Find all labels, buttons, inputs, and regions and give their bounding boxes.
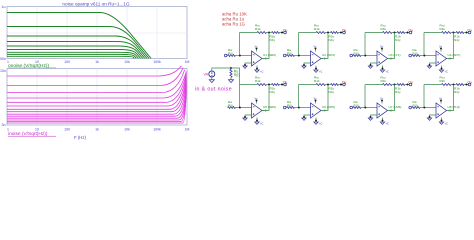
wire Rin to inverting input 5 bbox=[236, 107, 252, 109]
wire noninverting input 6 bbox=[304, 115, 311, 118]
wire Rfb to output node 2 bbox=[326, 32, 331, 34]
wire feedback vertical 6 bbox=[298, 85, 300, 108]
junction output node 5 bbox=[268, 84, 270, 86]
ground noninverting 6 bbox=[302, 118, 306, 120]
opamp cell U1 bbox=[224, 23, 287, 73]
wire Riso to out port 6 bbox=[339, 84, 343, 86]
ground noninverting 2 bbox=[302, 66, 306, 68]
junction V- 7 bbox=[382, 120, 384, 122]
svg-text:100: 100 bbox=[64, 128, 70, 132]
svg-text:Ou: Ou bbox=[409, 28, 413, 32]
wire feedback vertical 4 bbox=[423, 33, 425, 56]
svg-text:+C: +C bbox=[319, 122, 323, 126]
supply V- pin 6 bbox=[315, 118, 317, 122]
wire Rfb to output node 6 bbox=[326, 84, 331, 86]
resistor Rfb 4 bbox=[442, 32, 452, 34]
svg-text:+C: +C bbox=[445, 70, 449, 74]
onoise trace 4 bbox=[7, 42, 145, 59]
op-amp U4 bbox=[436, 51, 447, 66]
ground noninverting 4 bbox=[427, 66, 431, 68]
svg-text:N4y: N4y bbox=[270, 90, 276, 94]
junction V- 3 bbox=[382, 68, 384, 70]
junction V+ 4 bbox=[440, 48, 442, 50]
resistor Rfb 3 bbox=[383, 32, 393, 34]
svg-text:Ou: Ou bbox=[468, 28, 472, 32]
onoise trace 1 bbox=[7, 13, 151, 59]
resistor Riso 3 bbox=[397, 32, 405, 34]
out port 2 bbox=[343, 31, 346, 34]
wire Rin to inverting input 2 bbox=[295, 55, 311, 57]
wire Rfb to output node 8 bbox=[451, 84, 456, 86]
ground V- 7 bbox=[380, 122, 384, 124]
onoise trace 6 bbox=[7, 50, 141, 59]
resistor Rin 3 bbox=[353, 55, 361, 57]
wire noninverting input 8 bbox=[430, 115, 437, 118]
op-amp U2 bbox=[311, 51, 322, 66]
svg-text:+5: +5 bbox=[389, 57, 393, 61]
wire Rfb to output node 7 bbox=[392, 84, 397, 86]
ground V- 2 bbox=[314, 70, 318, 72]
svg-text:+5: +5 bbox=[263, 57, 267, 61]
voltage source VA bbox=[209, 71, 215, 77]
junction output node 1 bbox=[268, 32, 270, 34]
wire Riso to out port 8 bbox=[464, 84, 468, 86]
wire feedback top 1 bbox=[240, 32, 258, 34]
junction out port 7 bbox=[407, 84, 409, 86]
junction out port 8 bbox=[466, 84, 468, 86]
wire noninverting input 1 bbox=[245, 63, 252, 66]
ground below VA bbox=[209, 80, 214, 83]
junction feedback tap 5 bbox=[239, 107, 241, 109]
svg-text:Ou: Ou bbox=[283, 28, 287, 32]
svg-text:V+: V+ bbox=[255, 97, 259, 101]
wire input port to Rin bbox=[285, 55, 288, 57]
wire feedback top 3 bbox=[365, 32, 383, 34]
wire Riso to out port 3 bbox=[405, 32, 409, 34]
wire Riso to out port 7 bbox=[405, 84, 409, 86]
input port 3 bbox=[350, 54, 353, 57]
svg-text:R(I): R(I) bbox=[287, 104, 292, 108]
svg-text:N4y: N4y bbox=[395, 90, 401, 94]
onoise trace 9 bbox=[7, 56, 134, 58]
wire Rfb to output node 4 bbox=[451, 32, 456, 34]
svg-text:1k: 1k bbox=[95, 128, 99, 132]
svg-text:R1k: R1k bbox=[381, 27, 387, 31]
inoise trace 11 bbox=[7, 85, 186, 118]
resistor Rfb 2 bbox=[316, 32, 326, 34]
junction feedback tap 6 bbox=[298, 107, 300, 109]
onoise trace 3 bbox=[7, 36, 147, 58]
junction output node 8 bbox=[453, 84, 455, 86]
svg-text:+5: +5 bbox=[448, 109, 452, 113]
resistor Rin 1 bbox=[228, 55, 236, 57]
wire noninverting input 3 bbox=[371, 63, 378, 66]
op-amp U6 bbox=[311, 103, 322, 118]
op-amp U1 bbox=[252, 51, 263, 66]
junction V- 6 bbox=[315, 120, 317, 122]
svg-text:R(I): R(I) bbox=[287, 52, 292, 56]
junction noninverting 5 bbox=[244, 116, 246, 118]
op-amp input marks 8 bbox=[437, 107, 439, 115]
svg-text:+C: +C bbox=[386, 122, 390, 126]
svg-text:1u: 1u bbox=[2, 5, 6, 9]
x-axis tick labels onoise bbox=[7, 60, 189, 64]
svg-text:300n: 300n bbox=[0, 57, 6, 61]
svg-text:+C: +C bbox=[386, 70, 390, 74]
wire feedback top 4 bbox=[424, 32, 442, 34]
wire input port to Rin bbox=[411, 107, 414, 109]
wire Rin to inverting input 1 bbox=[236, 55, 252, 57]
junction feedback tap 2 bbox=[298, 55, 300, 57]
svg-text:N4y: N4y bbox=[454, 38, 460, 42]
svg-text:Ou: Ou bbox=[342, 28, 346, 32]
junction V- 5 bbox=[256, 120, 258, 122]
plot frame inoise bbox=[7, 69, 187, 126]
inoise trace 1 bbox=[7, 66, 182, 76]
wire feedback top 8 bbox=[424, 84, 442, 86]
opamp cell U5 bbox=[228, 75, 288, 125]
resistor Riso 1 bbox=[272, 32, 280, 34]
svg-text:V+: V+ bbox=[439, 45, 443, 49]
junction output node 3 bbox=[394, 32, 396, 34]
inoise trace 10 bbox=[7, 83, 186, 116]
ground noninverting 3 bbox=[368, 66, 372, 68]
inoise trace 2 bbox=[7, 68, 183, 86]
junction V+ 5 bbox=[256, 100, 258, 102]
wire input port to Rin bbox=[226, 55, 229, 57]
supply V- pin 8 bbox=[441, 118, 443, 122]
svg-text:N4y: N4y bbox=[329, 38, 335, 42]
op-amp input marks 5 bbox=[253, 107, 255, 115]
svg-text:N4y: N4y bbox=[329, 90, 335, 94]
resistor Rfb 7 bbox=[383, 84, 393, 86]
junction noninverting 4 bbox=[429, 64, 431, 66]
ground V- 8 bbox=[439, 122, 443, 124]
resistor Rin 5 bbox=[228, 107, 236, 109]
resistor Ru bbox=[230, 68, 232, 70]
junction feedback tap 3 bbox=[364, 55, 366, 57]
input port 6 bbox=[283, 106, 286, 109]
svg-text:VA: VA bbox=[203, 73, 208, 77]
resistor Rfb 8 bbox=[442, 84, 452, 86]
wire Rfb to output node 5 bbox=[267, 84, 272, 86]
junction output node 4 bbox=[453, 32, 455, 34]
supply V+ pin 6 bbox=[315, 100, 317, 104]
junction noninverting 3 bbox=[370, 64, 372, 66]
ground noninverting 1 bbox=[243, 66, 247, 68]
svg-text:+5: +5 bbox=[448, 57, 452, 61]
opamp cell U7 bbox=[350, 75, 413, 125]
svg-text:100k: 100k bbox=[153, 128, 161, 132]
svg-text:V+: V+ bbox=[380, 45, 384, 49]
supply V+ pin 8 bbox=[440, 100, 442, 104]
wire feedback vertical 1 bbox=[239, 33, 241, 56]
supply V- pin 2 bbox=[315, 66, 317, 70]
input port 1 bbox=[224, 54, 227, 57]
opamp cell U4 bbox=[409, 23, 472, 73]
svg-text:+5: +5 bbox=[389, 109, 393, 113]
wire Rin to inverting input 8 bbox=[420, 107, 436, 109]
junction noninverting 2 bbox=[303, 64, 305, 66]
supply V- pin 4 bbox=[441, 66, 443, 70]
wire Riso to out port 2 bbox=[339, 32, 343, 34]
svg-text:V+: V+ bbox=[314, 45, 318, 49]
ground noninverting 8 bbox=[427, 118, 431, 120]
wire input port to Rin bbox=[411, 55, 414, 57]
wire feedback vertical 8 bbox=[423, 85, 425, 108]
svg-text:N4y: N4y bbox=[270, 38, 276, 42]
inoise trace 9 bbox=[7, 81, 186, 114]
inoise trace 7 bbox=[7, 77, 186, 109]
junction V+ 8 bbox=[440, 100, 442, 102]
wire feedback vertical 7 bbox=[364, 85, 366, 108]
wire noninverting input 2 bbox=[304, 63, 311, 66]
onoise trace 2 bbox=[7, 27, 149, 59]
svg-text:in & out noise: in & out noise bbox=[195, 87, 232, 93]
wire Rfb to output node 3 bbox=[392, 32, 397, 34]
inoise trace 14 bbox=[7, 91, 186, 124]
opamp cell U2 bbox=[283, 23, 346, 73]
wire opamp output 3 bbox=[388, 33, 395, 59]
resistor Rin 8 bbox=[412, 107, 420, 109]
supply V- pin 1 bbox=[256, 66, 258, 70]
ground noninverting 7 bbox=[368, 118, 372, 120]
wire noninverting input 7 bbox=[371, 115, 378, 118]
svg-text:1k: 1k bbox=[95, 60, 99, 64]
op-amp input marks 1 bbox=[253, 55, 255, 63]
wire noninverting input 4 bbox=[430, 63, 437, 66]
svg-text:+5: +5 bbox=[322, 57, 326, 61]
svg-text:1M: 1M bbox=[185, 60, 190, 64]
supply V+ pin 7 bbox=[381, 100, 383, 104]
wire Rfb to output node 1 bbox=[267, 32, 272, 34]
wire Riso to out port 1 bbox=[280, 32, 284, 34]
svg-text:100: 100 bbox=[64, 60, 70, 64]
resistor Rin 6 bbox=[287, 107, 295, 109]
svg-text:R1k: R1k bbox=[255, 27, 261, 31]
input port 4 bbox=[409, 54, 412, 57]
resistor Rfb 6 bbox=[316, 84, 326, 86]
out port 8 bbox=[468, 83, 471, 86]
opamp cell U3 bbox=[350, 23, 413, 73]
svg-text:noise opamp v611 on Ru=1...1G: noise opamp v611 on Ru=1...1G bbox=[62, 1, 130, 6]
svg-text:R(I): R(I) bbox=[234, 73, 240, 77]
out port 4 bbox=[468, 31, 471, 34]
op-amp input marks 6 bbox=[312, 107, 314, 115]
junction feedback tap 7 bbox=[364, 107, 366, 109]
svg-text:R1k: R1k bbox=[255, 79, 261, 83]
svg-text:10: 10 bbox=[35, 128, 39, 132]
svg-text:10n: 10n bbox=[0, 69, 6, 73]
op-amp input marks 3 bbox=[378, 55, 380, 63]
svg-text:F (Hz): F (Hz) bbox=[74, 135, 87, 140]
wire Rin to inverting input 3 bbox=[361, 55, 377, 57]
svg-text:1M: 1M bbox=[185, 128, 190, 132]
junction V+ 6 bbox=[315, 100, 317, 102]
input port 8 bbox=[409, 106, 412, 109]
svg-text:R(I): R(I) bbox=[413, 104, 418, 108]
ground V- 1 bbox=[255, 70, 259, 72]
resistor Riso 4 bbox=[456, 32, 464, 34]
supply V+ pin 1 bbox=[256, 48, 258, 52]
inoise trace 13 bbox=[7, 89, 186, 122]
junction V- 8 bbox=[441, 120, 443, 122]
junction feedback tap 8 bbox=[423, 107, 425, 109]
junction output node 7 bbox=[394, 84, 396, 86]
wire feedback top 5 bbox=[240, 84, 258, 86]
op-amp U7 bbox=[377, 103, 388, 118]
wire input port to Rin bbox=[285, 107, 288, 109]
inoise trace 3 bbox=[7, 70, 185, 93]
junction feedback tap 4 bbox=[423, 55, 425, 57]
wire feeder to row2 input bbox=[231, 68, 240, 108]
input port 7 bbox=[350, 106, 353, 109]
inoise trace 5 bbox=[7, 73, 186, 102]
svg-text:N4y: N4y bbox=[454, 90, 460, 94]
svg-text:V+: V+ bbox=[439, 97, 443, 101]
junction V- 1 bbox=[256, 68, 258, 70]
svg-text:+5: +5 bbox=[263, 109, 267, 113]
out port 3 bbox=[409, 31, 412, 34]
svg-text:+C: +C bbox=[319, 70, 323, 74]
junction node Ru top bbox=[230, 67, 232, 69]
inoise trace 12 bbox=[7, 87, 186, 120]
supply V- pin 3 bbox=[382, 66, 384, 70]
wire VA bottom bbox=[211, 77, 213, 80]
resistor Rin 4 bbox=[412, 55, 420, 57]
gridlines inoise bbox=[7, 69, 187, 126]
junction out port 3 bbox=[407, 32, 409, 34]
junction noninverting 6 bbox=[303, 116, 305, 118]
ground V- 6 bbox=[314, 122, 318, 124]
svg-text:R(I): R(I) bbox=[354, 52, 359, 56]
out port 1 bbox=[284, 31, 287, 34]
ground noninverting 5 bbox=[243, 118, 247, 120]
wire Riso to out port 5 bbox=[280, 84, 284, 86]
junction noninverting 8 bbox=[429, 116, 431, 118]
resistor Riso 6 bbox=[331, 84, 339, 86]
inoise trace 8 bbox=[7, 79, 186, 112]
svg-text:10k: 10k bbox=[124, 60, 130, 64]
supply V- pin 5 bbox=[256, 118, 258, 122]
opamp cell U6 bbox=[283, 75, 346, 125]
resistor Riso 5 bbox=[272, 84, 280, 86]
svg-text:R1k: R1k bbox=[440, 27, 446, 31]
ground below Ru bbox=[229, 80, 234, 83]
resistor Rin 7 bbox=[353, 107, 361, 109]
svg-text:V+: V+ bbox=[314, 97, 318, 101]
supply V+ pin 5 bbox=[256, 100, 258, 104]
wire feedback vertical 2 bbox=[298, 33, 300, 56]
svg-text:Ou: Ou bbox=[468, 80, 472, 84]
plot frame onoise bbox=[7, 7, 187, 59]
wire opamp output 4 bbox=[447, 33, 454, 59]
junction output node 6 bbox=[327, 84, 329, 86]
resistor Riso 7 bbox=[397, 84, 405, 86]
svg-text:R1k: R1k bbox=[440, 79, 446, 83]
op-amp U5 bbox=[252, 103, 263, 118]
svg-text:+C: +C bbox=[260, 70, 264, 74]
junction V+ 1 bbox=[256, 48, 258, 50]
onoise trace 5 bbox=[7, 46, 143, 58]
wire opamp output 6 bbox=[321, 85, 328, 111]
junction noninverting 7 bbox=[370, 116, 372, 118]
wire Riso to out port 4 bbox=[464, 32, 468, 34]
svg-text:3n: 3n bbox=[2, 123, 6, 127]
junction V+ 3 bbox=[381, 48, 383, 50]
svg-text:V+: V+ bbox=[255, 45, 259, 49]
junction V+ 2 bbox=[315, 48, 317, 50]
x-axis tick labels inoise bbox=[7, 128, 189, 132]
wire feedback vertical 3 bbox=[364, 33, 366, 56]
resistor Rin 2 bbox=[287, 55, 295, 57]
svg-text:Ou: Ou bbox=[342, 80, 346, 84]
wire opamp output 2 bbox=[321, 33, 328, 59]
svg-text:Ou: Ou bbox=[409, 80, 413, 84]
wire Rin to inverting input 7 bbox=[361, 107, 377, 109]
input port 2 bbox=[283, 54, 286, 57]
resistor Riso 8 bbox=[456, 84, 464, 86]
wire Rin to inverting input 6 bbox=[295, 107, 311, 109]
junction out port 6 bbox=[340, 84, 342, 86]
svg-text:V+: V+ bbox=[380, 97, 384, 101]
junction feedback tap 1 bbox=[239, 55, 241, 57]
svg-text:+C: +C bbox=[445, 122, 449, 126]
svg-text:R1k: R1k bbox=[314, 27, 320, 31]
op-amp input marks 2 bbox=[312, 55, 314, 63]
svg-text:R(I): R(I) bbox=[228, 104, 233, 108]
wire feedback top 7 bbox=[365, 84, 383, 86]
supply V+ pin 4 bbox=[440, 48, 442, 52]
junction out port 2 bbox=[340, 32, 342, 34]
wire Ru bottom bbox=[230, 77, 232, 80]
junction out port 1 bbox=[281, 32, 283, 34]
svg-text:+5: +5 bbox=[322, 109, 326, 113]
op-amp U8 bbox=[436, 103, 447, 118]
svg-text:R(I): R(I) bbox=[354, 104, 359, 108]
junction V- 4 bbox=[441, 68, 443, 70]
wire noninverting input 5 bbox=[245, 115, 252, 118]
wire opamp output 7 bbox=[388, 85, 395, 111]
junction out port 5 bbox=[281, 84, 283, 86]
supply V+ pin 2 bbox=[315, 48, 317, 52]
wire VA top to node bbox=[212, 68, 231, 71]
svg-text:R(I): R(I) bbox=[228, 52, 233, 56]
svg-text:+C: +C bbox=[260, 122, 264, 126]
junction V- 2 bbox=[315, 68, 317, 70]
gridlines onoise bbox=[7, 7, 187, 59]
svg-text:R1k: R1k bbox=[314, 79, 320, 83]
wire opamp output 5 bbox=[262, 85, 269, 111]
wire feedback top 6 bbox=[299, 84, 317, 86]
ground V- 4 bbox=[439, 70, 443, 72]
junction noninverting 1 bbox=[244, 64, 246, 66]
op-amp input marks 4 bbox=[437, 55, 439, 63]
supply V+ pin 3 bbox=[381, 48, 383, 52]
out port 7 bbox=[409, 83, 412, 86]
out port 5 bbox=[284, 83, 287, 86]
resistor Riso 2 bbox=[331, 32, 339, 34]
opamp cell U8 bbox=[409, 75, 472, 125]
wire opamp output 1 bbox=[262, 33, 269, 59]
resistor Rfb 1 bbox=[257, 32, 267, 34]
resistor Rfb 5 bbox=[257, 84, 267, 86]
svg-text:N4y: N4y bbox=[395, 38, 401, 42]
wire Rin to inverting input 4 bbox=[420, 55, 436, 57]
svg-text:1: 1 bbox=[7, 128, 9, 132]
wire input port to Rin bbox=[352, 107, 355, 109]
wire feedback top 2 bbox=[299, 32, 317, 34]
